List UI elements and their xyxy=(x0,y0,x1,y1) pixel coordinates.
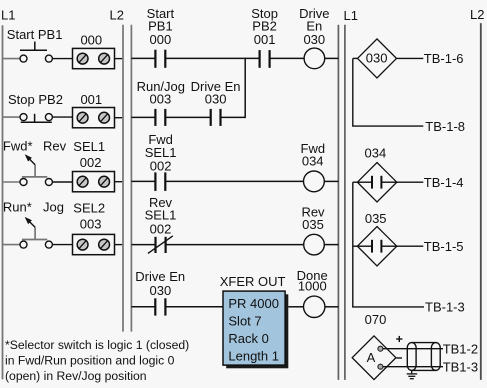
node L2 (output section label) xyxy=(470,7,484,22)
contact Run/Jog 003 (NO) xyxy=(137,79,185,126)
wire rung3 middle xyxy=(166,244,304,246)
wire 030 drop to TB-1-8 xyxy=(352,58,354,126)
svg-text:001: 001 xyxy=(80,92,102,107)
wire coil 034 to right rail xyxy=(324,180,338,182)
node - polarity xyxy=(396,357,402,359)
wire branch junction vertical xyxy=(244,58,246,118)
wire terminal 000 to L2 xyxy=(115,58,123,60)
output 035 diamond (contact) xyxy=(357,211,396,266)
wire terminal 002 to L2 xyxy=(115,181,123,183)
svg-text:000: 000 xyxy=(150,32,172,47)
svg-text:003: 003 xyxy=(80,216,102,231)
wire branch left xyxy=(131,116,155,118)
svg-text:TB-1-6: TB-1-6 xyxy=(424,51,464,66)
svg-text:SEL1: SEL1 xyxy=(145,208,177,223)
svg-text:Drive En: Drive En xyxy=(135,269,185,284)
wire analog + to TB1-2 xyxy=(383,348,443,350)
wire XFER block to coil xyxy=(288,306,304,308)
wire rung1 right xyxy=(270,57,305,59)
svg-text:003: 003 xyxy=(150,92,172,107)
node TB-1-4 xyxy=(424,175,464,190)
output 030 diamond xyxy=(358,39,397,78)
wire 035 to TB-1-5 xyxy=(397,245,424,247)
node TB-1-8 xyxy=(425,119,465,134)
wire analog - to TB1-3 xyxy=(383,366,443,368)
svg-text:Run*: Run* xyxy=(3,200,32,215)
wire 034/035 drop to TB-1-3 xyxy=(352,182,354,307)
svg-text:L2: L2 xyxy=(110,8,124,23)
node TB1-2 xyxy=(443,341,478,356)
shielded cable xyxy=(407,343,440,371)
coil Done 1000 xyxy=(297,268,328,317)
wire 030 stub xyxy=(353,57,358,59)
output 070 analog module A xyxy=(352,312,396,380)
wire coil 030 to right rail xyxy=(325,57,339,59)
svg-text:Start PB1: Start PB1 xyxy=(7,27,63,42)
wire 035 stub xyxy=(353,245,358,247)
pushbutton PB1 (Start, NO) xyxy=(3,27,62,62)
svg-text:PR 4000: PR 4000 xyxy=(228,296,279,311)
wire rung2 left xyxy=(131,180,155,182)
svg-text:TB-1-5: TB-1-5 xyxy=(424,239,464,254)
svg-text:035: 035 xyxy=(365,211,387,226)
input terminal block 003 xyxy=(73,216,115,254)
svg-text:TB1-3: TB1-3 xyxy=(443,359,478,374)
svg-text:070: 070 xyxy=(365,312,387,327)
node + polarity xyxy=(396,336,402,342)
svg-text:A: A xyxy=(367,350,376,365)
svg-text:001: 001 xyxy=(254,32,276,47)
svg-text:Length 1: Length 1 xyxy=(228,349,279,364)
wire coil 1000 to right rail xyxy=(325,306,339,308)
wire terminal 003 to L2 xyxy=(115,244,123,246)
contact Fwd SEL1 002 (NO) xyxy=(145,132,177,191)
svg-text:in Fwd/Run position and logic: in Fwd/Run position and logic 0 xyxy=(5,354,175,368)
wire PB1 to input terminal 000 xyxy=(52,58,72,60)
contact Start PB1 000 (NO) xyxy=(147,6,175,68)
svg-text:TB1-2: TB1-2 xyxy=(443,341,478,356)
wire rung1 middle xyxy=(165,57,259,59)
svg-text:Stop PB2: Stop PB2 xyxy=(8,92,63,107)
wire rung3 left xyxy=(131,244,155,246)
wire ladder right rail xyxy=(337,25,339,380)
svg-text:Jog: Jog xyxy=(43,200,64,215)
contact Rev SEL1 002 (NC) xyxy=(145,195,177,254)
svg-text:1000: 1000 xyxy=(298,279,327,294)
wire TB-1-3 xyxy=(352,306,424,308)
wire coil 035 to right rail xyxy=(324,244,338,246)
svg-text:SEL1: SEL1 xyxy=(73,139,105,154)
node L2 (input section label) xyxy=(110,8,124,23)
note text xyxy=(5,338,189,383)
svg-text:002: 002 xyxy=(150,222,172,237)
svg-text:L1: L1 xyxy=(344,8,358,23)
svg-text:030: 030 xyxy=(150,283,172,298)
svg-text:034: 034 xyxy=(302,154,324,169)
wire L1 output rail xyxy=(344,25,346,380)
node L1 (input section label) xyxy=(1,8,15,23)
wire TB-1-8 xyxy=(352,125,423,127)
svg-text:002: 002 xyxy=(80,155,102,170)
svg-text:034: 034 xyxy=(365,145,387,160)
node TB-1-5 xyxy=(424,239,464,254)
wire rung4 to XFER block xyxy=(165,306,224,308)
coil Rev 035 xyxy=(301,204,325,255)
wire L2 input rail xyxy=(122,25,124,332)
wire branch right xyxy=(221,116,246,118)
wire L2 output rail xyxy=(480,23,482,380)
contact Stop PB2 001 (NO) xyxy=(251,6,278,68)
node L1 (output section label) xyxy=(344,8,358,23)
node TB-1-6 xyxy=(424,51,464,66)
svg-text:L2: L2 xyxy=(470,7,484,22)
svg-text:(open) in Rev/Jog position: (open) in Rev/Jog position xyxy=(5,369,147,383)
svg-text:TB-1-4: TB-1-4 xyxy=(424,175,464,190)
svg-text:*Selector switch is logic 1 (c: *Selector switch is logic 1 (closed) xyxy=(5,338,189,352)
svg-text:Rev: Rev xyxy=(43,138,67,153)
wire terminal 001 to L2 xyxy=(115,117,123,119)
wire rung2 middle xyxy=(165,180,303,182)
svg-text:SEL2: SEL2 xyxy=(73,200,105,215)
output 034 diamond (contact) xyxy=(357,145,396,202)
wire rung1 left xyxy=(131,57,155,59)
svg-text:XFER OUT: XFER OUT xyxy=(220,274,286,289)
coil Drive En 030 xyxy=(299,6,329,69)
wire 030 to TB-1-6 xyxy=(397,57,424,59)
svg-text:TB-1-3: TB-1-3 xyxy=(425,300,465,315)
wire PB2 to input terminal 001 xyxy=(52,116,72,118)
svg-text:035: 035 xyxy=(302,217,324,232)
selector switch SEL2 (Run/Jog) xyxy=(3,200,105,249)
wire 034 stub xyxy=(353,181,358,183)
svg-text:L1: L1 xyxy=(1,8,15,23)
svg-text:Slot 7: Slot 7 xyxy=(228,313,261,328)
function block XFER OUT xyxy=(220,274,289,368)
wire 034 to TB-1-4 xyxy=(397,181,424,183)
selector switch SEL1 (Fwd/Rev) xyxy=(3,138,105,185)
wire L1 input rail xyxy=(2,25,4,379)
contact Drive En 030 (NO) xyxy=(191,79,241,126)
wire rung4 left xyxy=(131,306,155,308)
node TB-1-3 xyxy=(425,300,465,315)
svg-text:030: 030 xyxy=(303,32,325,47)
node TB1-3 xyxy=(443,359,478,374)
input terminal block 001 xyxy=(73,92,115,128)
ground xyxy=(407,370,418,378)
input terminal block 002 xyxy=(73,155,115,192)
wire branch middle xyxy=(165,116,210,118)
svg-text:030: 030 xyxy=(205,92,227,107)
svg-text:TB-1-8: TB-1-8 xyxy=(425,119,465,134)
wire SEL2 to input terminal 003 xyxy=(52,244,72,246)
input terminal block 000 xyxy=(73,33,115,69)
svg-text:030: 030 xyxy=(366,51,388,66)
svg-text:000: 000 xyxy=(80,33,102,48)
svg-text:Rack 0: Rack 0 xyxy=(228,331,268,346)
svg-text:002: 002 xyxy=(150,159,172,174)
wire ladder left rail xyxy=(130,25,132,332)
pushbutton PB2 (Stop, NC) xyxy=(3,92,63,122)
svg-text:Fwd*: Fwd* xyxy=(3,138,33,153)
coil Fwd 034 xyxy=(301,141,326,192)
contact Drive En 030 (NO) xyxy=(135,269,185,315)
wire SEL1 to input terminal 002 xyxy=(52,181,72,183)
